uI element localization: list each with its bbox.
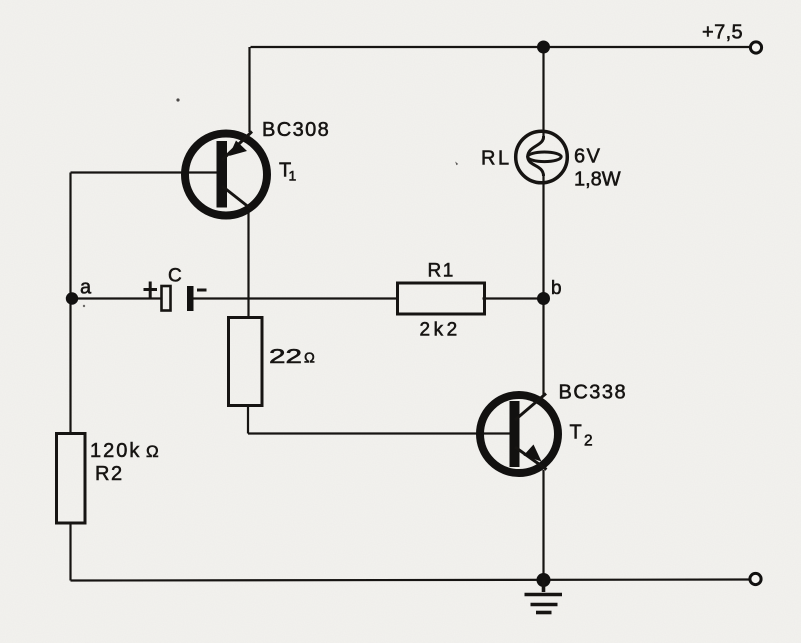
svg-text:22: 22	[269, 346, 302, 368]
resistor R1	[398, 283, 485, 314]
label T2	[570, 422, 593, 450]
label 120k ohm	[90, 440, 159, 462]
capacitor C	[144, 282, 207, 312]
wire bottom rail	[71, 580, 751, 581]
svg-text:1,8W: 1,8W	[574, 168, 621, 190]
wire R2 to bottom rail	[69, 523, 71, 581]
lamp RL	[516, 131, 568, 183]
svg-text:120k: 120k	[90, 440, 141, 462]
svg-text:2k2: 2k2	[420, 320, 461, 341]
transistor T1 BC308	[185, 132, 267, 216]
node bottom rail junction	[537, 573, 551, 587]
resistor R2	[57, 434, 86, 524]
svg-text:T: T	[570, 422, 582, 444]
svg-text:BC338: BC338	[559, 382, 628, 404]
svg-text:2: 2	[584, 433, 593, 450]
wire node a to R2	[69, 299, 71, 434]
wire R1 to node b	[483, 297, 544, 299]
transistor T2 BC338	[480, 394, 558, 474]
wire T1 collector down to 22ohm resistor	[247, 208, 249, 318]
label 22ohm	[269, 346, 315, 368]
svg-text:Ω: Ω	[146, 442, 159, 461]
svg-text:+7,5: +7,5	[702, 22, 743, 44]
wire T2 base horizontal	[248, 432, 512, 434]
svg-text:Ω: Ω	[304, 351, 315, 367]
svg-text:BC308: BC308	[262, 119, 330, 141]
node a	[66, 292, 78, 304]
speck below node a	[83, 305, 85, 307]
wire T1 base horizontal	[71, 171, 220, 173]
label T1	[279, 160, 297, 184]
ground	[525, 580, 563, 613]
wire lamp top lead	[542, 47, 544, 140]
wire T2 emitter vertical	[542, 470, 544, 580]
node top rail junction	[537, 41, 550, 54]
wire lamp bottom to node b	[542, 174, 544, 299]
terminal bottom right	[750, 573, 761, 584]
svg-text:6V: 6V	[574, 145, 601, 167]
wire left vertical to node a	[69, 173, 71, 299]
terminal +7,5	[750, 42, 761, 53]
speck near RL	[455, 162, 458, 166]
wire capacitor to R1	[193, 297, 398, 299]
wire T1 emitter vertical	[248, 47, 250, 132]
svg-text:RL: RL	[481, 148, 512, 170]
svg-text:1: 1	[289, 168, 297, 184]
svg-text:R2: R2	[95, 463, 124, 485]
wire node b to T2 collector	[542, 299, 544, 397]
svg-text:C: C	[168, 266, 182, 287]
wire top rail +7,5	[251, 46, 750, 48]
resistor 22ohm	[229, 318, 263, 406]
wire node a to capacitor	[71, 297, 162, 299]
svg-text:R1: R1	[428, 261, 455, 282]
svg-text:a: a	[80, 277, 92, 299]
svg-text:b: b	[551, 278, 562, 299]
wire 22ohm bottom lead	[247, 406, 249, 434]
node b	[537, 292, 550, 305]
speck top left	[176, 98, 179, 101]
